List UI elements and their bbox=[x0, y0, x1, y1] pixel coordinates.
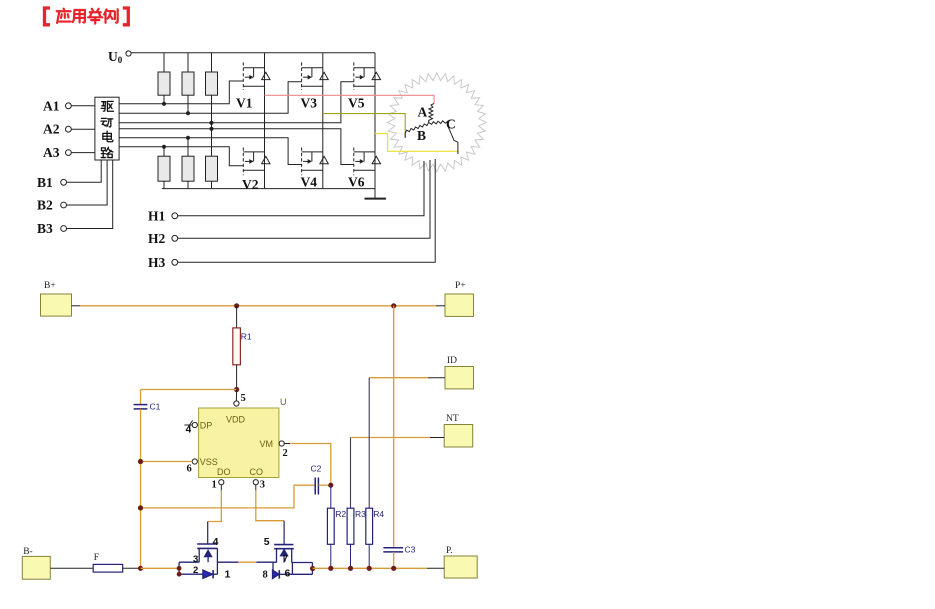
svg-text:H1: H1 bbox=[148, 208, 166, 223]
wire R21 upper lead bbox=[163, 147, 165, 156]
node B3 input bbox=[37, 160, 113, 236]
node B- rail junction bbox=[138, 566, 143, 571]
wire R13 top lead bbox=[211, 53, 213, 72]
wire Q1-Q2 link bbox=[217, 561, 276, 563]
svg-text:A3: A3 bbox=[43, 145, 60, 160]
node B2 input bbox=[37, 160, 107, 213]
wire phase B half-bridge bus bbox=[322, 53, 324, 189]
resistor R13 bbox=[206, 72, 218, 95]
svg-text:A1: A1 bbox=[43, 98, 60, 113]
wire C3 lower lead bbox=[393, 552, 395, 568]
svg-text:3: 3 bbox=[193, 554, 198, 565]
capacitor C2 bbox=[311, 464, 322, 495]
svg-text:U0: U0 bbox=[108, 49, 123, 65]
wire R3 lower lead bbox=[350, 544, 352, 568]
svg-text:V6: V6 bbox=[348, 175, 365, 190]
wire bottom rail to P- bbox=[313, 567, 445, 569]
node H3 hall sensor output bbox=[148, 159, 435, 270]
node U0 supply terminal bbox=[108, 49, 131, 65]
wire V6 gate drive bbox=[119, 127, 354, 165]
svg-text:DO: DO bbox=[217, 467, 231, 477]
svg-text:6: 6 bbox=[187, 464, 192, 475]
wire V3 gate drive bbox=[119, 82, 302, 115]
ground bbox=[365, 189, 387, 199]
svg-text:A2: A2 bbox=[43, 122, 60, 137]
svg-text:A: A bbox=[418, 105, 428, 120]
pin 6 VSS bbox=[187, 459, 198, 475]
wire phase B (olive) bbox=[323, 114, 405, 138]
pin labels Q1 bbox=[193, 536, 231, 580]
node Q1 fork junctions bbox=[177, 566, 182, 571]
wire VSS to left rail bbox=[141, 461, 193, 463]
node A2 input bbox=[43, 122, 95, 137]
svg-text:R3: R3 bbox=[355, 509, 366, 519]
svg-text:NT: NT bbox=[446, 414, 459, 424]
wire R4 lower lead bbox=[368, 544, 370, 568]
pin 3 CO bbox=[253, 480, 265, 491]
svg-text:B3: B3 bbox=[37, 221, 53, 236]
svg-text:2: 2 bbox=[193, 565, 198, 576]
resistor R4 bbox=[366, 508, 385, 544]
transistor V5 bbox=[354, 62, 381, 90]
svg-text:C2: C2 bbox=[311, 464, 322, 474]
wire left rail to C2 bbox=[141, 485, 316, 508]
wire R2 upper lead bbox=[330, 485, 332, 508]
terminal pad B- bbox=[22, 547, 50, 579]
svg-text:1: 1 bbox=[212, 480, 217, 491]
svg-text:H2: H2 bbox=[148, 231, 166, 246]
svg-text:3: 3 bbox=[260, 480, 265, 491]
wire R21 bottom lead bbox=[163, 181, 165, 188]
svg-text:V1: V1 bbox=[236, 96, 253, 111]
svg-text:VDD: VDD bbox=[226, 415, 246, 425]
node VSS junction bbox=[138, 459, 143, 464]
wire B- to fuse bbox=[50, 567, 93, 569]
terminal pad B+ bbox=[41, 281, 72, 316]
svg-text:V3: V3 bbox=[301, 96, 318, 111]
node VDD junction bbox=[234, 387, 239, 392]
svg-text:C3: C3 bbox=[405, 545, 416, 555]
svg-text:ID: ID bbox=[447, 356, 457, 366]
wire to Q1 fork bbox=[141, 567, 180, 569]
op-amp U (protection IC) bbox=[199, 397, 287, 478]
wire R11 lower lead bbox=[163, 95, 165, 104]
wire phase A half-bridge bus bbox=[264, 53, 266, 189]
svg-text:1: 1 bbox=[225, 569, 231, 581]
svg-text:R1: R1 bbox=[241, 332, 252, 342]
title 应用举例 (application examples) bbox=[45, 8, 129, 25]
svg-text:P+: P+ bbox=[455, 281, 466, 291]
resistor R3 bbox=[347, 508, 366, 544]
wire CO to Q2 gate bbox=[256, 485, 284, 545]
node Q2 output junction bbox=[310, 566, 315, 571]
terminal pad ID bbox=[445, 356, 474, 389]
svg-text:C: C bbox=[446, 117, 456, 132]
wire R2 lower lead bbox=[330, 544, 332, 568]
resistor R11 bbox=[158, 72, 170, 95]
wire V2 gate drive bbox=[119, 145, 243, 166]
pin labels Q2 bbox=[264, 536, 291, 579]
svg-text:P.: P. bbox=[446, 546, 453, 556]
wire R12 lower lead bbox=[187, 95, 189, 113]
transistor V3 bbox=[302, 62, 329, 90]
wire main positive rail B+ to P+ bbox=[72, 305, 446, 307]
svg-text:DP: DP bbox=[200, 421, 213, 431]
node rail junctions R2 R3 R4 C3 bbox=[328, 566, 333, 571]
winding C bbox=[429, 121, 458, 142]
svg-text:F: F bbox=[94, 553, 99, 563]
transistor Q1 (discharge FET) bbox=[179, 544, 218, 578]
drive circuit block 驱动电路 bbox=[95, 97, 119, 160]
wire V1 gate drive bbox=[119, 81, 243, 106]
wire P+ branch to C3 bbox=[393, 306, 395, 548]
svg-text:8: 8 bbox=[263, 570, 268, 581]
transistor Q2 (charge FET) bbox=[273, 545, 313, 579]
svg-text:B-: B- bbox=[23, 547, 33, 557]
wire R12 top lead bbox=[187, 53, 189, 72]
node VM/C2/R2 junction bbox=[328, 483, 333, 488]
svg-text:V5: V5 bbox=[348, 96, 365, 111]
wire V5 gate drive bbox=[119, 82, 354, 125]
terminal pad P+ bbox=[445, 281, 474, 316]
capacitor C3 bbox=[383, 545, 415, 555]
svg-text:R4: R4 bbox=[373, 509, 384, 519]
wire phase C half-bridge bus bbox=[374, 53, 376, 189]
resistor R12 bbox=[182, 72, 194, 95]
wire fuse to left rail node bbox=[123, 567, 141, 569]
pin 4 DP (no connect) bbox=[184, 420, 197, 435]
wire phase A (red) bbox=[265, 95, 435, 103]
winding A bbox=[429, 103, 434, 122]
wire R11 top lead bbox=[163, 53, 165, 72]
svg-text:4: 4 bbox=[213, 536, 219, 548]
capacitor C1 bbox=[134, 390, 161, 412]
wire C1 to VDD node bbox=[141, 389, 237, 391]
wire R23 bottom lead bbox=[211, 181, 213, 188]
svg-text:4: 4 bbox=[186, 425, 192, 436]
wire R13-R23 interconnect bbox=[211, 95, 213, 156]
wire NT branch bbox=[351, 438, 445, 509]
transistor V1 bbox=[243, 62, 270, 90]
node A1 input bbox=[43, 98, 95, 113]
svg-text:B+: B+ bbox=[44, 281, 56, 291]
pin 5 VDD bbox=[234, 393, 246, 406]
wire phase C (yellow) bbox=[375, 134, 458, 152]
terminal pad P- bbox=[444, 546, 477, 578]
svg-text:VSS: VSS bbox=[200, 457, 218, 467]
svg-text:B1: B1 bbox=[37, 175, 53, 190]
wire DO to Q1 gate bbox=[208, 485, 222, 544]
node H1 hall sensor output bbox=[148, 161, 424, 223]
resistor R22 bbox=[182, 156, 194, 181]
node H2 hall sensor output bbox=[148, 160, 430, 246]
svg-text:CO: CO bbox=[250, 467, 264, 477]
wire bottom rail of bridge bbox=[162, 188, 375, 190]
node rail junction at R1 bbox=[234, 303, 239, 308]
terminal pad NT bbox=[444, 414, 473, 447]
svg-text:C1: C1 bbox=[150, 402, 161, 412]
resistor R2 bbox=[327, 508, 346, 544]
node rail junction at C3 branch bbox=[391, 303, 396, 308]
svg-text:U: U bbox=[280, 397, 287, 407]
wire top supply rail bbox=[131, 52, 375, 54]
node B1 input bbox=[37, 160, 101, 190]
resistor R23 bbox=[206, 156, 218, 181]
resistor R21 bbox=[158, 156, 170, 181]
wire C2 to VM node bbox=[318, 484, 330, 486]
transistor V6 bbox=[354, 148, 381, 176]
transistor V4 bbox=[302, 148, 329, 176]
node A3 input bbox=[43, 145, 95, 160]
svg-text:5: 5 bbox=[241, 393, 246, 404]
wire ID branch bbox=[369, 378, 445, 509]
svg-text:H3: H3 bbox=[148, 255, 166, 270]
fuse F bbox=[93, 553, 123, 572]
transistor V2 bbox=[243, 148, 270, 176]
wire VM to R2 top bbox=[284, 444, 331, 486]
svg-text:VM: VM bbox=[260, 439, 274, 449]
svg-text:6: 6 bbox=[285, 568, 291, 580]
svg-text:V4: V4 bbox=[301, 175, 318, 190]
winding B bbox=[405, 122, 429, 137]
svg-text:R2: R2 bbox=[335, 509, 346, 519]
svg-text:5: 5 bbox=[264, 536, 270, 548]
wire R22 upper lead bbox=[187, 138, 189, 156]
resistor R1 bbox=[233, 306, 252, 390]
svg-text:V2: V2 bbox=[242, 177, 259, 192]
svg-text:7: 7 bbox=[283, 554, 288, 564]
wire V4 gate drive bbox=[119, 136, 302, 165]
wire left vertical rail bbox=[140, 409, 142, 568]
pin 2 VM bbox=[279, 441, 288, 459]
svg-text:B2: B2 bbox=[37, 198, 53, 213]
wire VDD node to pin5 bbox=[235, 390, 237, 401]
motor stator (gear ring) bbox=[387, 73, 486, 172]
node left rail lower junction bbox=[138, 505, 143, 510]
svg-text:B: B bbox=[417, 128, 426, 143]
wire R22 bottom lead bbox=[187, 181, 189, 188]
svg-text:2: 2 bbox=[283, 448, 288, 459]
pin 1 DO bbox=[212, 480, 224, 491]
